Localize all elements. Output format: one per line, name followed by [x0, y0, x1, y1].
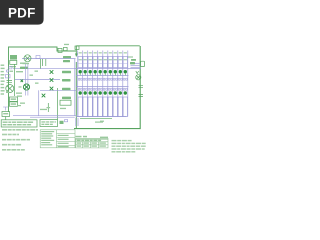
svg-text:PDF: PDF [8, 5, 36, 20]
